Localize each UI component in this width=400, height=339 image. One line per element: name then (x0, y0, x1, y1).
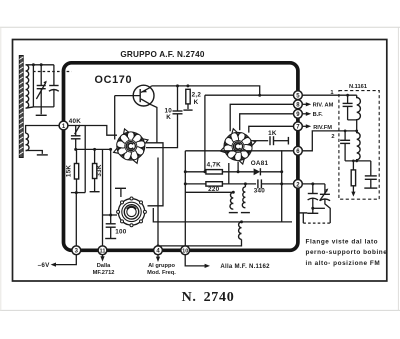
junction (32, 63, 35, 66)
wire rosette L5 lower-left stub (228, 163, 230, 184)
svg-text:in alto- posizione FM: in alto- posizione FM (306, 260, 381, 267)
junction (258, 94, 261, 97)
svg-text:perno-supporto bobine: perno-supporto bobine (306, 249, 388, 256)
wire oscillator rosette left arm (103, 214, 118, 216)
junction (40, 63, 43, 66)
ferrite rod antenna (19, 56, 23, 158)
svg-text:N.1161: N.1161 (349, 84, 367, 90)
wire terminal 4 riser (157, 158, 159, 246)
junction (109, 148, 112, 151)
coil S1 (229, 192, 238, 212)
junction (176, 84, 179, 87)
supply rail (151, 86, 259, 95)
wire to terminal 5 (205, 94, 294, 96)
arrow terminal 4 (156, 255, 160, 262)
wire terminal 2 to FM padder (303, 183, 325, 185)
IF transformer N.1161 (dashed enclosure) (339, 91, 379, 200)
capacitor IF tank 1 (343, 95, 353, 120)
scan page edge top (0, 26, 400, 28)
mechanical gang link (dashed, FM trimmer) (303, 222, 330, 224)
transistor OC170 (115, 85, 154, 106)
terminal 8 (294, 100, 303, 109)
resistor (N.1161 output) (351, 161, 355, 197)
wire to terminal 7 (249, 126, 294, 132)
svg-text:2: 2 (331, 134, 334, 140)
wire AVC vertical (84, 126, 86, 193)
capacitor 340 (258, 179, 294, 188)
wire terminal 10 to M.F. (185, 255, 205, 266)
junction (232, 191, 235, 194)
capacitor 1K (253, 136, 289, 145)
svg-text:Dalla: Dalla (97, 263, 111, 269)
terminal 4 (154, 246, 163, 255)
wire IF tank 2 bottom (345, 160, 371, 162)
svg-text:Flange viste dal lato: Flange viste dal lato (306, 238, 379, 245)
wire to terminal 9 (240, 114, 294, 130)
ground (FM padder) (307, 208, 318, 213)
terminal 10 (181, 246, 190, 255)
junction (240, 220, 243, 223)
stub bar on oscillator rosette top (115, 188, 126, 197)
coil flange L4 (oscillator coil rosette) (117, 197, 147, 227)
svg-text:2,2: 2,2 (192, 92, 202, 99)
junction (157, 244, 160, 247)
capacitor 10K (146, 86, 183, 148)
svg-text:OC170: OC170 (95, 74, 133, 86)
wire terminal 6 to N.1161 pin 2 (303, 131, 357, 151)
svg-text:RIV.FM: RIV.FM (313, 125, 332, 131)
svg-text:OA81: OA81 (251, 160, 269, 167)
junction (203, 170, 206, 173)
junction (75, 191, 78, 194)
terminal 11 (98, 246, 107, 255)
junction (311, 207, 314, 210)
ground (antenna coil L2) (37, 154, 48, 156)
terminal 3 (72, 246, 81, 255)
outer frame (13, 40, 387, 282)
svg-text:340: 340 (254, 188, 266, 195)
svg-text:GRUPPO A.F. N.2740: GRUPPO A.F. N.2740 (120, 50, 205, 59)
arrow RIV. AM (303, 102, 312, 106)
svg-text:11: 11 (100, 249, 106, 255)
svg-text:15K: 15K (66, 165, 73, 178)
wire tuned-loop left (32, 65, 34, 107)
terminal 7 (294, 122, 303, 131)
junction (184, 182, 187, 185)
chassis stub outside shield (299, 213, 307, 223)
arrow Alla M.F. (205, 264, 210, 268)
svg-text:N. 2740: N. 2740 (182, 290, 235, 305)
junction (93, 148, 96, 151)
trimmer capacitor (antenna tuning) (36, 65, 46, 107)
wire tuned-loop bottom (33, 106, 54, 108)
wire terminal 11 riser (102, 149, 104, 245)
wire oscillator tap (185, 191, 233, 193)
arrow terminal 11 (100, 255, 104, 262)
svg-text:40K: 40K (69, 118, 82, 125)
note Flange (306, 238, 388, 266)
wire antenna top (26, 64, 54, 66)
wire coil L2 bottom to ground (26, 151, 43, 154)
capacitor IF tank 2 (340, 131, 350, 161)
wire terminal 1 to base network (64, 126, 118, 136)
wire terminal 6 branch (282, 151, 294, 222)
terminal 2 (294, 180, 303, 189)
junction (109, 214, 112, 217)
wire terminal 10 riser (184, 151, 186, 246)
wire IF tank 1 bottom (348, 120, 357, 131)
scan page edge right (397, 27, 399, 310)
svg-text:100: 100 (115, 229, 127, 236)
junction (237, 170, 240, 173)
svg-text:–6V: –6V (38, 262, 51, 269)
junction (344, 130, 347, 133)
scan page edge bottom (0, 309, 400, 311)
shield box (thick rounded rectangle) (64, 63, 298, 251)
junction (280, 170, 283, 173)
svg-text:Alla M.F. N.1162: Alla M.F. N.1162 (220, 263, 270, 270)
coil S2 (241, 184, 250, 213)
wire terminal 5 to N.1161 pin 1 (303, 94, 357, 96)
wire collector branch to oscillator rosette (148, 143, 164, 206)
wire emitter to supply rail (150, 86, 151, 88)
arrow B.F. (303, 112, 312, 116)
resistor 220 (185, 182, 256, 186)
ground (2,2K) (183, 109, 192, 111)
ground (antenna tuned circuit) (36, 107, 47, 115)
junction (280, 182, 283, 185)
wire terminal 3 to -6V (55, 255, 77, 265)
capacitor (N.1161 output) (364, 161, 377, 188)
mechanical gang link (dashed) (33, 71, 72, 73)
resistor 33K (93, 149, 97, 191)
junction (186, 84, 189, 87)
svg-text:1K: 1K (268, 130, 277, 137)
arrow RIV.FM (303, 124, 312, 128)
resistor 2,2K (186, 89, 190, 109)
coil flange L5 (RF transformer rosette) (219, 128, 257, 166)
svg-text:MF.2712: MF.2712 (93, 270, 115, 276)
wire FM oscillator line (242, 221, 293, 223)
wire rosette L5 bottom (237, 162, 239, 172)
junction (355, 160, 358, 163)
padder capacitor (antenna) (49, 86, 59, 107)
resistor 4,7K (185, 170, 253, 174)
coil flange L3 (mixer coil rosette) (112, 127, 149, 164)
junction (184, 170, 187, 173)
wire rosette L3 left arm vertical (110, 149, 112, 215)
wire FM line left (153, 208, 241, 222)
svg-text:Al gruppo: Al gruppo (148, 263, 175, 269)
svg-text:4,7K: 4,7K (207, 161, 222, 168)
terminal 6 (294, 146, 303, 155)
svg-text:RIV. AM: RIV. AM (313, 103, 334, 109)
svg-text:B.F.: B.F. (313, 112, 324, 118)
coil IF tank 2 (357, 131, 360, 161)
wire coil L2 to terminal 1 (26, 126, 59, 134)
terminal 9 (294, 109, 303, 118)
junction (346, 94, 349, 97)
junction (311, 182, 314, 185)
capacitor FM padder (308, 184, 318, 208)
junction (352, 160, 355, 163)
junction (74, 148, 77, 151)
diode OA81 (254, 168, 282, 175)
svg-text:10: 10 (182, 249, 188, 255)
coil IF tank 1 (357, 95, 361, 120)
wire junction bar to terminal 3 (71, 193, 85, 246)
junction (355, 130, 358, 133)
wire base vertical (114, 96, 116, 140)
wire collector (145, 105, 157, 143)
trimmer capacitor 40K (71, 125, 81, 149)
ground (33K) (90, 191, 100, 193)
terminal 1 (59, 121, 68, 130)
terminal 5 (294, 91, 303, 100)
svg-text:Mod. Freq.: Mod. Freq. (147, 270, 176, 276)
scan page edge left (0, 27, 2, 310)
trimmer capacitor FM (320, 184, 331, 223)
junction (244, 182, 247, 185)
coil S3 (158, 222, 242, 246)
antenna coil L2 (bottom winding) (26, 133, 29, 150)
resistor 15K (74, 149, 78, 192)
arrow -6V (51, 263, 56, 267)
wire AGC vertical (204, 95, 206, 172)
node rail (base bias) (76, 148, 111, 150)
wire FM padder bottom (313, 207, 325, 209)
wire mixer output rail (185, 150, 281, 152)
svg-text:K: K (194, 99, 199, 106)
wire to terminal 8 (230, 104, 293, 131)
wire tuned-loop right (53, 65, 55, 86)
antenna coil L1 (top winding) (26, 65, 34, 108)
svg-text:K: K (166, 114, 171, 121)
capacitor 100 (105, 215, 116, 239)
